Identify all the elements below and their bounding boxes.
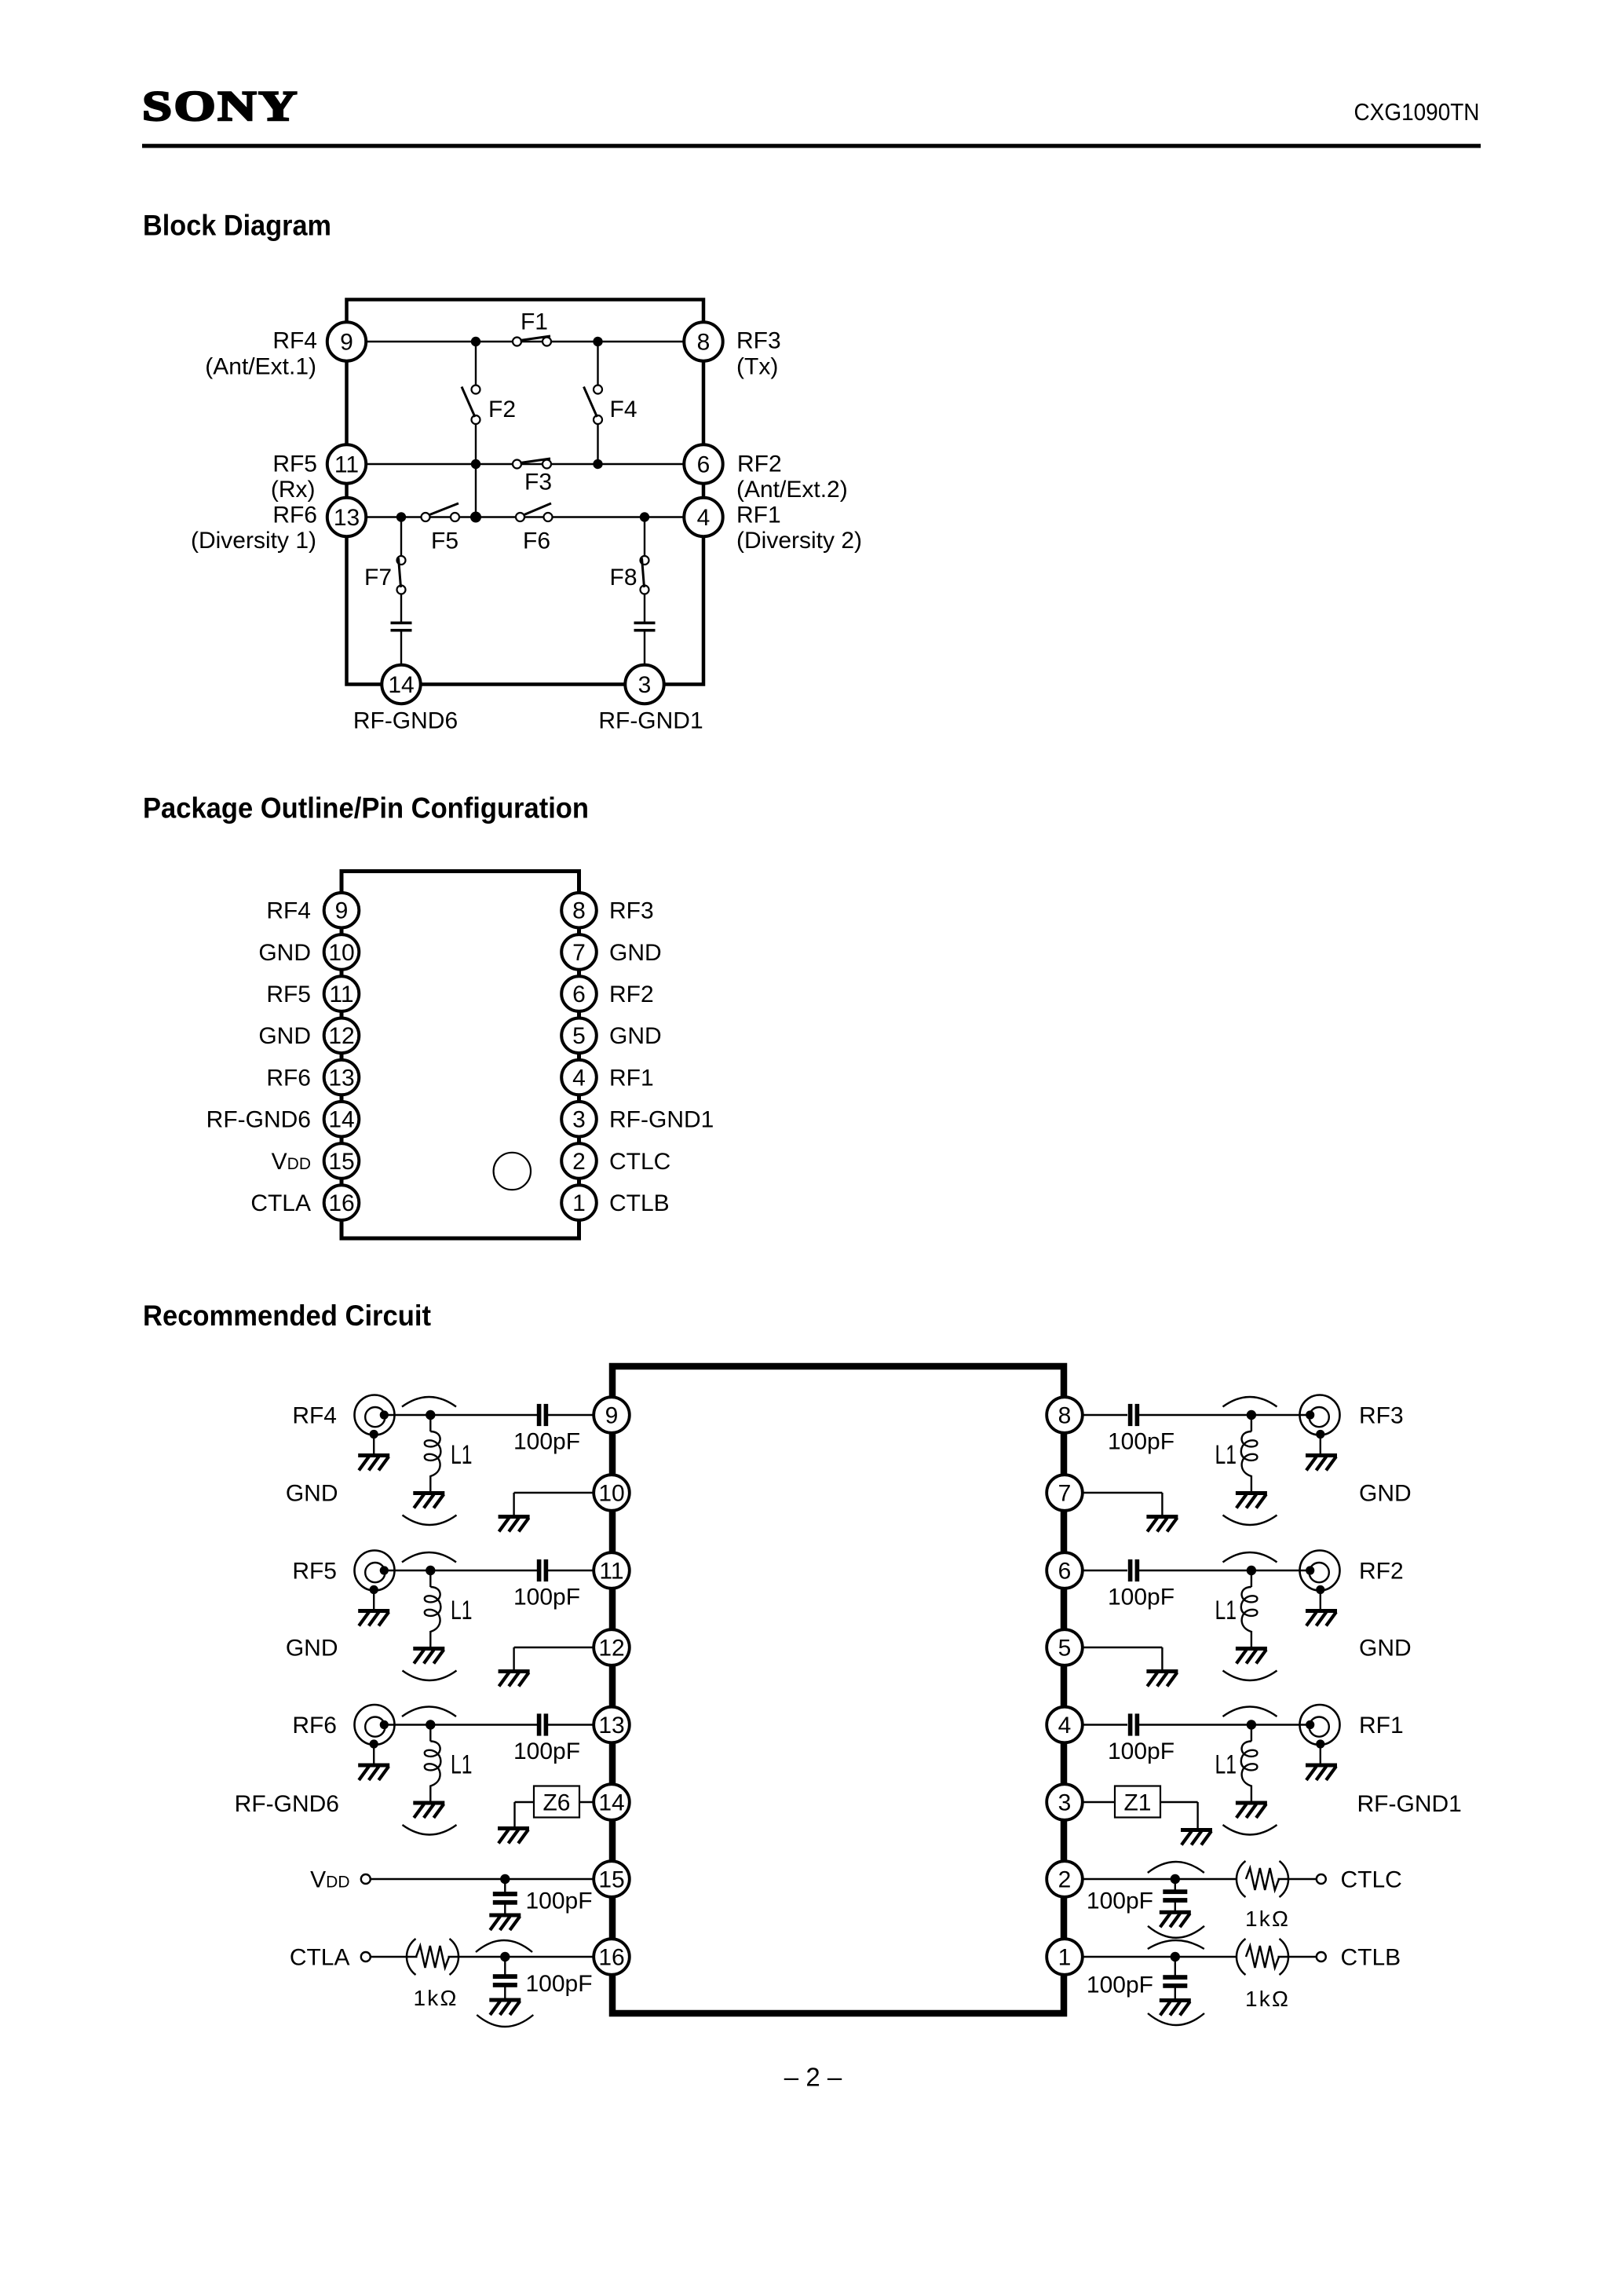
svg-text:CTLC: CTLC — [609, 1149, 670, 1175]
svg-text:RF3: RF3 — [1359, 1402, 1404, 1428]
wire VDD to pin 15 — [371, 1878, 594, 1880]
svg-text:100pF: 100pF — [513, 1429, 580, 1455]
switch F4 — [584, 386, 603, 425]
wire RF5 connector to capacitor — [384, 1570, 537, 1571]
resistor 1k (CTLB) — [1237, 1939, 1288, 1975]
inductor L1 (RF4 row) — [425, 1431, 441, 1476]
capacitor 100pF (RF3 row) — [1128, 1404, 1139, 1426]
wire F8 to capacitor — [644, 590, 645, 622]
svg-text:6: 6 — [572, 982, 586, 1007]
wire F7 to capacitor — [400, 590, 402, 622]
svg-text:RF6: RF6 — [272, 503, 317, 528]
svg-text:2: 2 — [1058, 1866, 1072, 1892]
shield arc above L1 (RF3 row) — [1223, 1397, 1277, 1407]
bypass capacitor 100pF (VDD) — [493, 1892, 517, 1905]
pin 12 (package) — [324, 1018, 360, 1054]
switch F5 — [422, 503, 460, 521]
wire GND pin to ground — [514, 1493, 594, 1515]
svg-text:Z1: Z1 — [1123, 1790, 1151, 1816]
svg-text:9: 9 — [340, 329, 353, 355]
RF3 connector ground — [1306, 1453, 1337, 1471]
RF6 coax connector — [355, 1705, 395, 1764]
svg-text:(Diversity 2): (Diversity 2) — [736, 528, 862, 554]
svg-text:5: 5 — [1058, 1635, 1072, 1661]
terminal CTLB — [1317, 1952, 1326, 1961]
shield arc below L1 (RF2 row) — [1223, 1671, 1277, 1681]
wire pin to capacitor (RF1 row) — [1082, 1724, 1127, 1725]
svg-text:F4: F4 — [610, 397, 637, 422]
wire capacitor to pin (RF5 row) — [548, 1570, 594, 1571]
svg-text:11: 11 — [334, 452, 359, 477]
RF1 coax connector — [1300, 1705, 1340, 1764]
block diagram outline — [347, 300, 704, 685]
inductor L1 (RF6 row) — [425, 1742, 441, 1786]
wire GND pin to ground (right) — [1082, 1647, 1162, 1669]
pin 8 (package) — [561, 893, 597, 928]
svg-text:8: 8 — [697, 329, 711, 355]
wire resistor to pin 16 — [448, 1956, 595, 1958]
pin 1 (circuit) — [1047, 1939, 1083, 1975]
svg-text:13: 13 — [598, 1713, 624, 1738]
svg-text:14: 14 — [328, 1107, 354, 1133]
svg-text:RF5: RF5 — [266, 982, 311, 1007]
package outline — [342, 872, 579, 1239]
RF3 coax connector — [1300, 1395, 1340, 1455]
wire L1 to ground — [429, 1475, 431, 1491]
svg-text:15: 15 — [328, 1149, 354, 1175]
switch F8 — [641, 556, 649, 594]
svg-text:(Ant/Ext.2): (Ant/Ext.2) — [736, 477, 848, 503]
svg-text:1: 1 — [572, 1190, 586, 1216]
svg-text:GND: GND — [286, 1635, 338, 1661]
svg-text:Recommended Circuit: Recommended Circuit — [143, 1300, 431, 1332]
svg-text:1kΩ: 1kΩ — [1245, 1907, 1290, 1931]
svg-text:SONY: SONY — [142, 82, 299, 130]
ground for CTLC bypass — [1160, 1910, 1191, 1928]
pin 9 (package) — [324, 893, 360, 928]
svg-text:F6: F6 — [523, 528, 550, 554]
wire capacitor to pin 3 — [644, 632, 645, 666]
inductor L1 (RF5 row) — [425, 1587, 441, 1632]
wire Z6 to ground — [515, 1802, 535, 1826]
shield arc above L1 (RF2 row) — [1223, 1552, 1277, 1563]
pin 11 (package) — [324, 976, 360, 1011]
svg-text:RF2: RF2 — [609, 982, 654, 1007]
IC outline (recommended circuit) — [612, 1366, 1064, 2013]
pin 10 (circuit) — [594, 1475, 630, 1511]
RF6 connector ground — [358, 1764, 389, 1781]
pin 12 (circuit) — [594, 1629, 630, 1665]
svg-text:7: 7 — [1058, 1480, 1072, 1506]
RF4 coax connector — [355, 1395, 395, 1455]
pin 4 (circuit) — [1047, 1707, 1083, 1743]
svg-text:RF-GND6: RF-GND6 — [235, 1791, 339, 1817]
svg-text:12: 12 — [598, 1635, 624, 1661]
wire RF4-RF3 row — [347, 341, 704, 342]
pin 2 (circuit) — [1047, 1861, 1083, 1897]
pin 11 (block) — [327, 444, 366, 483]
wire L1 to ground — [429, 1786, 431, 1801]
pin 5 (circuit) — [1047, 1629, 1083, 1665]
shield arc below L1 (RF3 row) — [1223, 1515, 1277, 1526]
bypass capacitor 100pF (CTLB) — [1163, 1975, 1187, 1988]
wire RF6 connector to capacitor — [384, 1724, 537, 1725]
wire RF6-RF1 row — [347, 516, 704, 517]
svg-text:11: 11 — [329, 982, 353, 1007]
svg-text:RF3: RF3 — [736, 328, 781, 354]
pin 7 (package) — [561, 934, 597, 970]
svg-text:F1: F1 — [521, 309, 548, 335]
capacitor 100pF (RF2 row) — [1128, 1559, 1139, 1581]
svg-text:8: 8 — [1058, 1402, 1072, 1428]
svg-text:16: 16 — [328, 1190, 354, 1216]
wire capacitor to pin 14 — [400, 632, 402, 666]
RF2 coax connector — [1300, 1551, 1340, 1610]
svg-text:RF5: RF5 — [292, 1558, 337, 1584]
svg-text:RF2: RF2 — [1359, 1558, 1404, 1584]
svg-text:100pF: 100pF — [1087, 1888, 1153, 1914]
pin 13 (circuit) — [594, 1707, 630, 1743]
ground under L1 (RF5 row) — [413, 1647, 444, 1664]
ground under L1 (RF1 row) — [1236, 1801, 1267, 1819]
wire pin to capacitor (RF2 row) — [1082, 1570, 1127, 1571]
svg-text:L1: L1 — [451, 1750, 473, 1780]
svg-text:6: 6 — [1058, 1558, 1072, 1584]
svg-text:L1: L1 — [451, 1440, 473, 1470]
switch F6 — [516, 503, 553, 521]
wire Z1 to ground — [1160, 1802, 1198, 1828]
pin 16 (package) — [324, 1185, 360, 1220]
svg-text:9: 9 — [605, 1402, 619, 1428]
svg-text:F3: F3 — [524, 469, 552, 495]
svg-text:L1: L1 — [1215, 1440, 1237, 1470]
shield arc below L1 (RF6 row) — [403, 1825, 457, 1835]
wire capacitor to pin (RF4 row) — [548, 1414, 594, 1416]
svg-text:GND: GND — [609, 940, 662, 966]
svg-text:5: 5 — [572, 1023, 586, 1049]
svg-text:RF1: RF1 — [736, 503, 781, 528]
svg-text:100pF: 100pF — [1087, 1972, 1153, 1998]
wire junction to bypass capacitor (CTLB) — [1174, 1961, 1176, 1978]
svg-text:Package Outline/Pin Configurat: Package Outline/Pin Configuration — [143, 792, 589, 824]
junction at F6 left — [470, 512, 481, 523]
svg-text:RF4: RF4 — [272, 328, 317, 354]
svg-text:GND: GND — [1359, 1635, 1412, 1661]
wire junction to inductor L1 — [429, 1575, 431, 1587]
resistor 1k (CTLA) — [407, 1939, 458, 1975]
wire F4 lower branch — [597, 420, 598, 465]
wire F2 branch — [475, 342, 477, 389]
wire CTLA to resistor — [371, 1956, 418, 1958]
wire L1 to ground (RF2 row) — [1251, 1631, 1252, 1647]
pin 3 (circuit) — [1047, 1784, 1083, 1820]
svg-text:1kΩ: 1kΩ — [414, 1986, 458, 2010]
wire pin to junction (CTLB) — [1082, 1956, 1237, 1958]
svg-text:RF5: RF5 — [272, 452, 317, 477]
svg-text:100pF: 100pF — [526, 1888, 593, 1914]
wire resistor to terminal (CTLB) — [1278, 1956, 1317, 1958]
svg-text:100pF: 100pF — [513, 1738, 580, 1764]
pin 5 (package) — [561, 1018, 597, 1054]
shield arc above CTLB bypass — [1148, 1940, 1204, 1949]
wire GND pin to ground (right) — [1082, 1493, 1162, 1515]
svg-text:14: 14 — [388, 672, 414, 698]
shield arc below L1 (RF5 row) — [403, 1671, 457, 1681]
pin 4 (package) — [561, 1060, 597, 1095]
svg-text:– 2 –: – 2 – — [784, 2063, 842, 2092]
ground symbol (GND pin right) — [1146, 1669, 1178, 1687]
svg-text:RF6: RF6 — [292, 1713, 337, 1738]
inductor L1 (RF2 row) — [1241, 1587, 1258, 1632]
wire capacitor to ground (CTLB) — [1174, 1986, 1176, 2001]
shield arc above CTLA bypass — [476, 1940, 532, 1952]
pin 9 (block) — [327, 322, 366, 360]
svg-text:RF6: RF6 — [266, 1065, 311, 1091]
pin 13 (block) — [327, 498, 366, 536]
wire capacitor to ground (CTLC) — [1174, 1900, 1176, 1912]
svg-text:10: 10 — [328, 940, 354, 966]
ground symbol (GND pin) — [499, 1515, 530, 1532]
svg-text:3: 3 — [572, 1107, 586, 1133]
shield arc above CTLC bypass — [1148, 1862, 1204, 1873]
wire capacitor to ground (CTLA) — [504, 1985, 506, 1999]
junction at F3 right — [593, 459, 602, 469]
wire capacitor to connector (RF1 row) — [1139, 1724, 1310, 1725]
svg-text:Z6: Z6 — [542, 1790, 570, 1816]
wire pin to capacitor (RF3 row) — [1082, 1414, 1127, 1416]
ground under L1 (RF2 row) — [1236, 1647, 1267, 1664]
wire capacitor to ground (VDD) — [504, 1903, 506, 1914]
wire junction to inductor L1 (RF1 row) — [1251, 1730, 1252, 1742]
junction at F5 left — [396, 512, 406, 521]
pin 14 (circuit) — [594, 1784, 630, 1820]
ground under L1 (RF4 row) — [413, 1491, 444, 1508]
capacitor on F7 branch — [391, 622, 412, 632]
svg-text:16: 16 — [598, 1944, 624, 1970]
SONY logo — [142, 82, 299, 130]
pin 1 indicator circle — [494, 1153, 531, 1190]
svg-text:100pF: 100pF — [1108, 1738, 1174, 1764]
svg-text:F5: F5 — [431, 528, 458, 554]
junction at F1 left — [471, 337, 480, 346]
shield arc below CTLC bypass — [1148, 1926, 1204, 1938]
shield arc below L1 (RF1 row) — [1223, 1825, 1277, 1835]
inductor L1 (RF3 row) — [1241, 1431, 1258, 1476]
wire junction to inductor L1 (RF2 row) — [1251, 1575, 1252, 1587]
wire F4 branch — [597, 342, 598, 389]
wire L1 to ground — [429, 1631, 431, 1647]
svg-text:(Tx): (Tx) — [736, 354, 778, 380]
svg-text:RF4: RF4 — [266, 898, 311, 924]
shield arc below CTLA bypass — [477, 2015, 533, 2027]
pin 11 (circuit) — [594, 1552, 630, 1589]
pin 4 (block) — [684, 498, 722, 536]
svg-text:(Ant/Ext.1): (Ant/Ext.1) — [205, 354, 316, 380]
wire Z6 to pin 14 — [579, 1801, 594, 1803]
pin 13 (package) — [324, 1060, 360, 1095]
svg-text:100pF: 100pF — [1108, 1585, 1174, 1610]
wire pin to junction (CTLC) — [1082, 1878, 1237, 1880]
wire junction to inductor L1 (RF3 row) — [1251, 1420, 1252, 1431]
junction RF5 node — [426, 1566, 435, 1575]
svg-text:4: 4 — [572, 1065, 586, 1091]
terminal CTLA — [361, 1952, 371, 1961]
ground for Z6 — [498, 1826, 529, 1844]
svg-text:(Diversity 1): (Diversity 1) — [191, 528, 316, 554]
svg-text:1: 1 — [1058, 1944, 1072, 1970]
svg-text:L1: L1 — [1215, 1596, 1237, 1625]
ground symbol (GND pin right) — [1146, 1515, 1178, 1532]
svg-text:100pF: 100pF — [526, 1971, 593, 1997]
svg-text:8: 8 — [572, 898, 586, 924]
pin 6 (package) — [561, 976, 597, 1011]
block Z6 — [534, 1786, 579, 1818]
terminal CTLC — [1317, 1874, 1326, 1884]
svg-text:GND: GND — [286, 1480, 338, 1506]
pin 14 (block) — [382, 665, 420, 704]
pin 15 (circuit) — [594, 1861, 630, 1897]
shield arc above L1 (RF1 row) — [1223, 1707, 1277, 1717]
resistor 1k (CTLC) — [1237, 1861, 1288, 1897]
RF5 connector ground — [358, 1609, 389, 1626]
svg-text:14: 14 — [598, 1790, 624, 1815]
RF1 connector ground — [1306, 1764, 1337, 1781]
svg-text:Block Diagram: Block Diagram — [143, 210, 331, 242]
svg-text:7: 7 — [572, 940, 586, 966]
junction RF2 node — [1247, 1566, 1256, 1575]
wire junction to inductor L1 — [429, 1730, 431, 1742]
shield arc above L1 (RF4 row) — [402, 1397, 456, 1407]
RF5 coax connector — [355, 1551, 395, 1610]
wire junction to bypass capacitor (CTLA) — [504, 1961, 506, 1977]
ground for Z1 — [1181, 1828, 1212, 1845]
ground under L1 (RF6 row) — [413, 1801, 444, 1819]
pin 10 (package) — [324, 934, 360, 970]
switch F7 — [397, 556, 406, 594]
svg-text:RF4: RF4 — [292, 1402, 337, 1428]
junction at F1 right — [593, 337, 602, 346]
svg-text:RF3: RF3 — [609, 898, 654, 924]
wire capacitor to pin (RF6 row) — [548, 1724, 594, 1725]
switch F1 — [513, 336, 551, 346]
bypass capacitor 100pF (CTLC) — [1163, 1889, 1187, 1903]
ground symbol (GND pin) — [499, 1669, 530, 1687]
svg-text:2: 2 — [572, 1149, 586, 1175]
bypass capacitor 100pF (CTLA) — [493, 1974, 517, 1987]
wire pin 3 to Z1 — [1082, 1801, 1115, 1803]
wire junction to inductor L1 — [429, 1420, 431, 1431]
svg-text:GND: GND — [258, 1023, 311, 1049]
junction VDD bypass — [500, 1874, 510, 1884]
pin 16 (circuit) — [594, 1939, 630, 1975]
svg-text:3: 3 — [638, 672, 652, 698]
svg-text:CTLA: CTLA — [250, 1190, 311, 1216]
svg-text:F7: F7 — [364, 565, 392, 590]
svg-text:F8: F8 — [610, 565, 637, 590]
svg-text:RF1: RF1 — [1359, 1713, 1404, 1738]
pin 9 (circuit) — [594, 1397, 630, 1433]
wire L1 to ground (RF1 row) — [1251, 1786, 1252, 1801]
svg-text:12: 12 — [328, 1023, 354, 1049]
svg-text:CTLB: CTLB — [609, 1190, 670, 1216]
junction RF3 node — [1247, 1410, 1256, 1420]
pin 6 (circuit) — [1047, 1552, 1083, 1589]
shield arc below CTLB bypass — [1148, 2013, 1204, 2025]
svg-text:13: 13 — [328, 1065, 354, 1091]
wire junction to bypass capacitor (CTLC) — [1174, 1884, 1176, 1892]
svg-text:RF-GND6: RF-GND6 — [206, 1107, 311, 1133]
capacitor on F8 branch — [634, 622, 656, 632]
ground for CTLB bypass — [1160, 1998, 1191, 2016]
svg-text:4: 4 — [697, 505, 711, 531]
svg-text:4: 4 — [1058, 1713, 1072, 1738]
svg-text:6: 6 — [697, 452, 711, 477]
capacitor 100pF (RF4 row) — [537, 1404, 548, 1426]
pin 8 (block) — [684, 322, 722, 360]
wire RF4 connector to capacitor — [384, 1414, 537, 1416]
pin 14 (package) — [324, 1102, 360, 1137]
svg-text:RF1: RF1 — [609, 1065, 654, 1091]
capacitor 100pF (RF6 row) — [537, 1713, 548, 1735]
pin 2 (package) — [561, 1143, 597, 1179]
junction CTLB bypass — [1171, 1952, 1180, 1961]
inductor L1 (RF1 row) — [1241, 1742, 1258, 1786]
svg-text:RF-GND1: RF-GND1 — [1357, 1791, 1462, 1817]
pin 7 (circuit) — [1047, 1475, 1083, 1511]
ground for VDD bypass — [489, 1914, 521, 1931]
svg-text:CTLB: CTLB — [1341, 1944, 1401, 1970]
wire GND pin to ground — [514, 1647, 594, 1669]
switch F2 — [462, 386, 480, 425]
ground under L1 (RF3 row) — [1236, 1491, 1267, 1508]
junction at F3 left — [471, 459, 480, 469]
terminal VDD — [361, 1874, 371, 1884]
wire F2-F6 branch — [475, 420, 477, 517]
shield arc below L1 (RF4 row) — [403, 1515, 457, 1526]
wire capacitor to connector (RF3 row) — [1139, 1414, 1310, 1416]
svg-text:100pF: 100pF — [513, 1585, 580, 1610]
pin 3 (package) — [561, 1102, 597, 1137]
svg-text:10: 10 — [598, 1480, 624, 1506]
svg-text:RF-GND6: RF-GND6 — [353, 708, 458, 734]
pin 15 (package) — [324, 1143, 360, 1179]
capacitor 100pF (RF5 row) — [537, 1559, 548, 1581]
svg-text:GND: GND — [609, 1023, 662, 1049]
svg-text:RF-GND1: RF-GND1 — [609, 1107, 714, 1133]
pin 6 (block) — [684, 444, 722, 483]
shield arc above L1 (RF6 row) — [402, 1707, 456, 1717]
svg-text:13: 13 — [334, 505, 360, 531]
wire F8 branch — [644, 517, 645, 561]
svg-text:L1: L1 — [1215, 1750, 1237, 1780]
wire junction to bypass capacitor — [504, 1884, 506, 1893]
junction RF6 node — [426, 1720, 435, 1729]
svg-text:GND: GND — [258, 940, 311, 966]
pin 1 (package) — [561, 1185, 597, 1220]
junction RF4 node — [426, 1410, 435, 1420]
wire L1 to ground (RF3 row) — [1251, 1475, 1252, 1491]
svg-text:CTLC: CTLC — [1341, 1866, 1402, 1892]
shield arc above L1 (RF5 row) — [402, 1552, 456, 1563]
switch F3 — [513, 459, 551, 469]
junction RF1 node — [1247, 1720, 1256, 1729]
pin 8 (circuit) — [1047, 1397, 1083, 1433]
RF4 connector ground — [358, 1453, 389, 1471]
svg-text:1kΩ: 1kΩ — [1245, 1987, 1290, 2011]
svg-text:15: 15 — [598, 1866, 624, 1892]
svg-text:L1: L1 — [451, 1596, 473, 1625]
svg-text:9: 9 — [335, 898, 349, 924]
